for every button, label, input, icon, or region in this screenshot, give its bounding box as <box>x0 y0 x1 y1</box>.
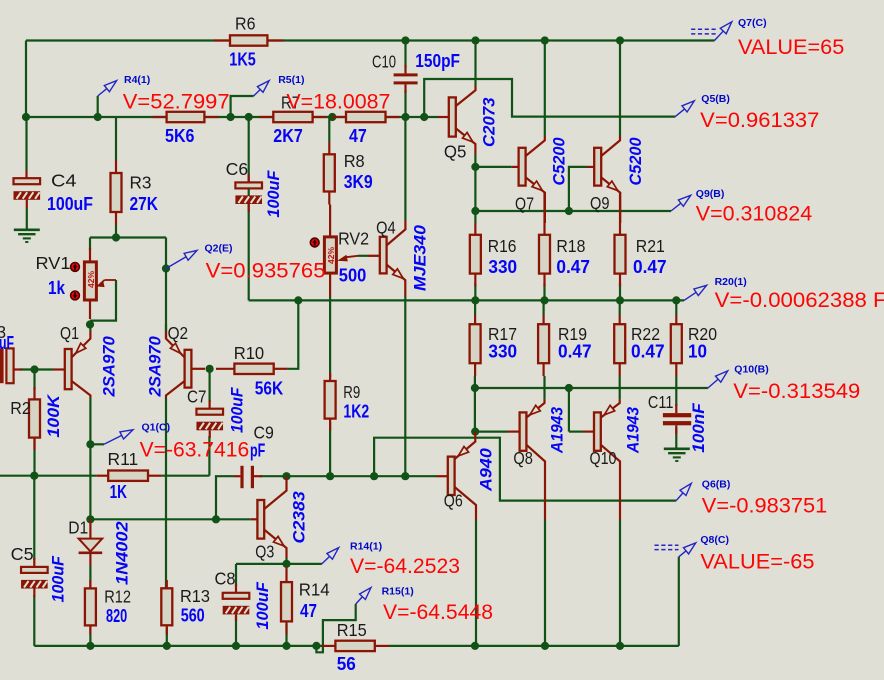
wire R9 / RV2 column <box>329 296 331 378</box>
resistor R22 0.47 <box>619 315 621 324</box>
svg-text:V=0.961337: V=0.961337 <box>700 108 819 132</box>
svg-text:C5: C5 <box>11 544 34 564</box>
resistor R8 3K9 <box>328 117 330 142</box>
svg-text:V=18.0087: V=18.0087 <box>286 89 390 113</box>
wire R17 top lead <box>474 300 476 315</box>
capacitor C6 100uF <box>248 174 250 182</box>
svg-text:V=-0.983751: V=-0.983751 <box>702 494 828 518</box>
svg-text:R16: R16 <box>488 236 517 256</box>
capacitor C11 100nF <box>675 404 677 413</box>
svg-text:RV2: RV2 <box>338 229 369 249</box>
potentiometer RV1 1k <box>89 248 91 262</box>
svg-text:820: 820 <box>106 605 127 626</box>
probe R4(1) <box>97 96 99 117</box>
svg-text:V=-0.00062388 F: V=-0.00062388 F <box>715 288 884 312</box>
wire V- probe riser <box>678 557 680 646</box>
wire Q8 collector drop <box>544 520 546 646</box>
svg-text:A1943: A1943 <box>625 407 643 454</box>
svg-text:V=0.310824: V=0.310824 <box>696 202 812 226</box>
svg-text:R12: R12 <box>104 586 131 606</box>
resistor R20 10 <box>675 315 677 324</box>
probe R5(1) <box>231 96 254 117</box>
wire Q1(C) probe stub <box>90 443 104 445</box>
svg-text:3K9: 3K9 <box>344 171 373 192</box>
svg-text:A1943: A1943 <box>549 407 567 454</box>
resistor R15 56 <box>322 645 335 647</box>
svg-text:0.47: 0.47 <box>556 256 590 277</box>
wire Q7 collector riser <box>544 41 546 137</box>
diode D1 1N4002 <box>89 519 91 538</box>
wire R15(1) probe hook <box>316 604 355 652</box>
svg-text:R13: R13 <box>180 586 210 606</box>
capacitor C4 100uF <box>25 117 27 170</box>
svg-text:100uF: 100uF <box>50 555 68 602</box>
svg-text:27K: 27K <box>130 193 159 214</box>
svg-text:V=-64.2523: V=-64.2523 <box>350 554 460 578</box>
svg-text:R6: R6 <box>235 14 256 34</box>
potentiometer RV2 500 <box>329 205 331 237</box>
svg-text:Q7: Q7 <box>515 194 534 214</box>
svg-text:1K2: 1K2 <box>343 400 369 421</box>
junction dots <box>22 113 30 121</box>
transistor Q5 C2073 (NPN) <box>438 116 449 118</box>
svg-text:R21: R21 <box>636 236 665 256</box>
wire R19 bottom to Q8 emitter <box>543 376 545 399</box>
RV2 terminal marker <box>310 238 319 247</box>
wire top-left drop to front-end rail <box>25 41 27 118</box>
svg-text:100uF: 100uF <box>265 170 283 218</box>
svg-text:Q8(C): Q8(C) <box>700 534 729 546</box>
resistor R4 5K6 <box>153 116 167 118</box>
transistor Q2 2SA970 (PNP mirrored) <box>191 368 205 370</box>
svg-text:RV1: RV1 <box>36 253 71 273</box>
resistor R6 1K5 <box>214 39 230 41</box>
probe R14(1) <box>322 556 330 564</box>
resistor R12 820 <box>89 580 91 588</box>
resistor R18 0.47 <box>543 192 545 235</box>
svg-text:42%: 42% <box>327 247 336 264</box>
RV1 terminal markers <box>71 263 80 272</box>
svg-text:2K7: 2K7 <box>273 125 303 146</box>
svg-text:R15(1): R15(1) <box>382 586 414 598</box>
svg-text:C11: C11 <box>648 392 674 412</box>
wire RV1 bottom / wiper loop <box>90 280 116 321</box>
svg-text:Q10(B): Q10(B) <box>734 364 768 376</box>
transistor Q1 2SA970 (PNP) <box>53 368 65 370</box>
svg-text:56: 56 <box>337 653 356 674</box>
svg-text:Q6(B): Q6(B) <box>702 479 731 491</box>
svg-text:V=52.7997: V=52.7997 <box>123 89 230 113</box>
transistor Q10 A1943 (PNP) <box>583 431 594 433</box>
svg-text:47: 47 <box>300 600 317 621</box>
wire Q5-base jog to probe Q5(B) <box>424 79 675 117</box>
capacitor C8 100uF <box>235 584 237 593</box>
svg-text:100uF: 100uF <box>47 193 93 214</box>
svg-text:330: 330 <box>488 341 517 362</box>
capacitor C7 100uF <box>209 400 211 409</box>
wire Q5 collector riser <box>474 41 476 87</box>
wire Q9 collector riser <box>619 41 621 137</box>
svg-text:R3: R3 <box>130 173 152 193</box>
probe Q10(B) <box>708 379 718 388</box>
wire R21 bottom lead <box>619 283 621 300</box>
svg-text:0.47: 0.47 <box>631 341 665 362</box>
svg-text:C7: C7 <box>187 387 207 407</box>
wire +65V top rail <box>26 39 715 41</box>
wire C6 bootstrap riser <box>248 117 250 300</box>
wire Q8 base link <box>475 431 508 433</box>
wire Q3 emitter line y=564 <box>236 563 322 565</box>
resistor R10 56K <box>216 368 234 370</box>
probe Q2(E) <box>166 257 186 269</box>
svg-text:Q2: Q2 <box>168 323 189 343</box>
svg-text:150pF: 150pF <box>415 50 460 71</box>
svg-text:Q4: Q4 <box>376 217 396 237</box>
capacitor C5 100uF <box>33 558 35 567</box>
svg-text:A940: A940 <box>478 447 496 492</box>
wire front-end bias rail y=117 <box>26 116 438 118</box>
RV2 wiper arrow <box>346 256 358 257</box>
wire input node to Q1 base <box>20 368 53 370</box>
wire R22 top lead <box>619 300 621 315</box>
wire Q2 collector drop to R13 <box>165 398 167 588</box>
wire Q1 collector drop <box>89 398 91 519</box>
probe R20(1) <box>684 292 696 300</box>
svg-text:R18: R18 <box>556 236 585 256</box>
svg-text:R2: R2 <box>10 398 31 418</box>
wire C7 bottom riser <box>208 436 210 476</box>
wire C8 bottom lead <box>235 616 237 646</box>
probe Q6(B) <box>676 493 683 501</box>
resistor R21 0.47 <box>619 192 621 235</box>
wire Q9 base link <box>569 167 587 211</box>
wire Q5/Q7 drive link y=167 <box>475 166 511 168</box>
svg-text:560: 560 <box>181 605 205 626</box>
svg-text:Q10: Q10 <box>590 448 617 468</box>
probe Q8(C) -65V supply <box>655 544 679 546</box>
resistor R16 330 <box>474 223 476 235</box>
wire R3 bottom link y=237.5 <box>90 236 166 238</box>
wire R2 bottom lead <box>33 435 35 476</box>
svg-text:V=-63.7416: V=-63.7416 <box>140 437 250 461</box>
svg-text:R5(1): R5(1) <box>278 74 304 86</box>
wire C5 top lead <box>33 476 35 560</box>
svg-text:VALUE=-65: VALUE=-65 <box>700 550 814 574</box>
ground symbol under C4 <box>14 229 40 232</box>
svg-text:Q2(E): Q2(E) <box>205 242 233 254</box>
wire C7 top riser <box>209 369 211 402</box>
wire Q10 collector drop <box>619 520 621 646</box>
resistor R9 1K2 <box>329 373 331 381</box>
resistor R5 2K7 <box>259 116 273 118</box>
svg-text:100uF: 100uF <box>254 581 272 629</box>
wire RV1 top lead <box>89 238 91 251</box>
transistor Q3 C2383 (NPN) <box>251 518 258 520</box>
wire Q4 collector riser <box>404 117 406 220</box>
wire Q3 base line y=519.3 <box>90 518 250 520</box>
wire bottom negative rail y=646 <box>34 645 322 647</box>
svg-text:R20(1): R20(1) <box>715 276 747 288</box>
svg-text:uF: uF <box>0 332 14 353</box>
svg-text:1K5: 1K5 <box>229 49 256 70</box>
svg-text:100nF: 100nF <box>690 402 708 452</box>
ground symbol under C11 <box>664 447 690 450</box>
svg-text:MJE340: MJE340 <box>412 224 430 291</box>
wire lower drive line y=476.2 <box>260 475 437 477</box>
svg-text:Q8: Q8 <box>513 448 533 468</box>
svg-text:C5200: C5200 <box>627 137 645 186</box>
wire C8 top riser <box>235 564 237 586</box>
svg-text:Q3: Q3 <box>255 541 274 561</box>
wire lower drive rail y=388 <box>475 387 708 389</box>
svg-text:Q7(C): Q7(C) <box>738 17 767 29</box>
wire R18 bottom lead <box>543 283 545 300</box>
wire R10 riser to output rail <box>287 300 298 368</box>
resistor R14 47 <box>285 567 287 582</box>
wire feedback rail y=475.7 <box>0 475 96 477</box>
svg-text:R8: R8 <box>344 151 365 171</box>
RV1 wiper arrow <box>105 279 117 281</box>
wire Q6 collector drop <box>475 520 477 646</box>
svg-text:C2383: C2383 <box>291 491 309 543</box>
wire Q2 emitter riser <box>165 238 167 339</box>
svg-text:1k: 1k <box>48 277 66 298</box>
svg-text:R15: R15 <box>337 620 367 640</box>
wire Q5 emitter / R16 column <box>474 167 476 223</box>
svg-text:Q1: Q1 <box>60 323 79 343</box>
svg-text:D1: D1 <box>68 518 88 538</box>
capacitor C3 input (partial at edge) <box>0 348 4 383</box>
resistor R11 1K <box>96 475 108 477</box>
probe Q9(B) <box>671 203 681 211</box>
wire R16 bottom lead <box>474 283 476 300</box>
svg-text:1N4002: 1N4002 <box>114 521 132 585</box>
svg-text:R10: R10 <box>234 343 265 363</box>
svg-text:10: 10 <box>688 341 707 362</box>
wire R22 bottom to Q10 emitter <box>619 376 621 399</box>
svg-text:V=0.935765: V=0.935765 <box>206 259 326 283</box>
svg-text:R11: R11 <box>108 449 139 469</box>
transistor Q4 MJE340 (NPN) <box>368 255 380 257</box>
svg-text:R4(1): R4(1) <box>124 74 150 86</box>
svg-text:Q5(B): Q5(B) <box>701 93 730 105</box>
svg-text:2SA970: 2SA970 <box>146 335 164 397</box>
wire R2 top lead <box>33 370 35 391</box>
wire Q10 base link <box>568 388 570 432</box>
svg-text:V=-64.5448: V=-64.5448 <box>383 600 493 624</box>
resistor R17 330 <box>474 315 476 324</box>
wire R14 bottom lead <box>285 624 287 646</box>
svg-text:Q9: Q9 <box>590 193 610 213</box>
svg-text:C4: C4 <box>51 170 77 190</box>
probe Q7(C) +65V supply <box>691 28 716 30</box>
svg-text:500: 500 <box>339 265 367 286</box>
wire C10 bottom lead <box>404 90 406 117</box>
resistor R2 100K <box>33 387 35 399</box>
wire C10 top lead <box>404 41 406 69</box>
transistor Q9 C5200 (NPN) <box>587 166 594 168</box>
wire output rail y=300 <box>249 299 684 301</box>
svg-text:Q5: Q5 <box>444 142 467 162</box>
wire Q6(B) probe jog <box>374 438 676 501</box>
svg-text:Q6: Q6 <box>444 491 463 511</box>
transistor Q8 A1943 (PNP) <box>508 431 520 433</box>
wire C5 bottom lead <box>33 595 35 646</box>
svg-text:100K: 100K <box>45 394 63 438</box>
wire R20 bottom to C11 <box>675 376 677 406</box>
wire R19 top lead <box>542 300 544 315</box>
svg-text:VALUE=65: VALUE=65 <box>738 35 844 59</box>
probe Q5(B) <box>675 109 684 117</box>
svg-text:5K6: 5K6 <box>165 125 195 146</box>
svg-text:V=-0.313549: V=-0.313549 <box>733 379 860 403</box>
transistor Q6 A940 (PNP) <box>437 475 448 477</box>
svg-text:0.47: 0.47 <box>558 341 592 362</box>
svg-text:R9: R9 <box>343 382 360 402</box>
svg-text:0.47: 0.47 <box>633 256 667 277</box>
capacitor C9 <box>234 475 240 477</box>
svg-text:47: 47 <box>349 125 367 146</box>
transistor Q7 C5200 (NPN) <box>512 166 519 168</box>
capacitor C10 150pF <box>404 65 406 73</box>
wire Q4 emitter drop <box>404 296 406 476</box>
svg-text:C5200: C5200 <box>551 137 569 186</box>
wire C9 left riser <box>216 476 234 519</box>
probe Q1(C) <box>104 435 122 444</box>
svg-text:R14(1): R14(1) <box>350 541 382 553</box>
svg-text:R14: R14 <box>299 580 330 600</box>
svg-text:C6: C6 <box>226 159 249 179</box>
wire R12 bottom lead <box>89 628 91 646</box>
resistor R13 560 <box>166 580 168 588</box>
svg-text:56K: 56K <box>255 377 284 398</box>
svg-text:100uF: 100uF <box>229 387 247 433</box>
svg-text:pF: pF <box>250 440 265 461</box>
resistor R19 0.47 <box>542 315 544 324</box>
resistor R7 47 <box>332 116 346 118</box>
resistor R3 27K <box>115 117 117 160</box>
probe R15(1) <box>356 597 363 604</box>
svg-text:42%: 42% <box>87 271 96 288</box>
svg-text:C8: C8 <box>215 569 236 589</box>
wire upper drive rail y=211 <box>475 210 671 212</box>
wire C11 bottom to ground <box>675 428 677 449</box>
svg-text:330: 330 <box>488 256 517 277</box>
svg-text:2SA970: 2SA970 <box>101 335 119 397</box>
wire R17 / Q6-emitter column <box>474 376 476 432</box>
svg-text:Q1(C): Q1(C) <box>142 421 171 433</box>
svg-text:C2073: C2073 <box>481 98 499 148</box>
wire R20 top lead <box>675 300 677 315</box>
svg-text:1K: 1K <box>110 481 128 502</box>
svg-text:Q9(B): Q9(B) <box>696 188 725 200</box>
svg-text:C10: C10 <box>372 51 396 71</box>
